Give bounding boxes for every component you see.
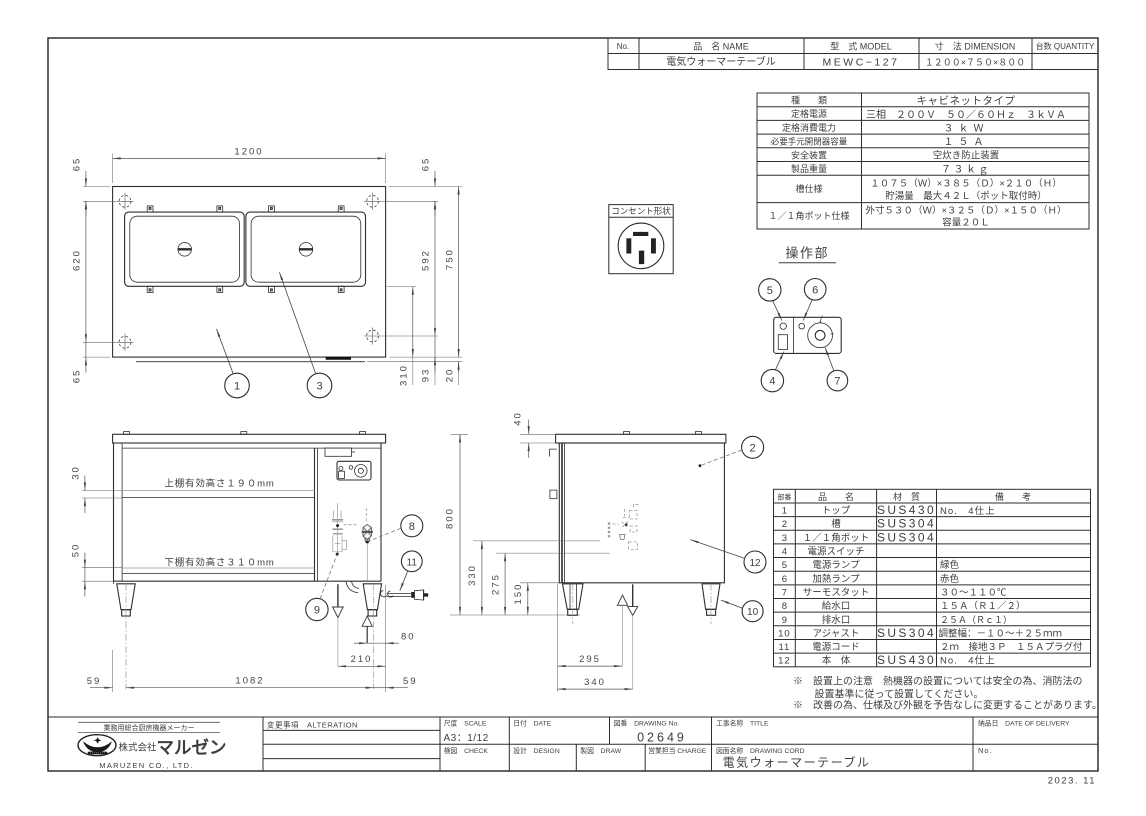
dimension 620 left (83, 341, 116, 343)
svg-text:1: 1 (234, 381, 240, 393)
svg-text:マルゼン: マルゼン (157, 738, 227, 758)
outlet prongs (633, 232, 648, 236)
svg-text:２ｍ 接地３Ｐ １５Ａプラグ付: ２ｍ 接地３Ｐ １５Ａプラグ付 (940, 641, 1083, 653)
balloon 1 (225, 373, 250, 398)
dimension 210 (338, 665, 386, 667)
svg-text:7: 7 (834, 376, 840, 388)
svg-text:800: 800 (445, 507, 456, 529)
dimension 310 (387, 286, 416, 288)
dimension 330 (473, 540, 600, 542)
dimension 150 (520, 582, 559, 584)
svg-text:310: 310 (398, 364, 409, 386)
svg-text:工事名称 TITLE: 工事名称 TITLE (716, 719, 769, 728)
svg-text:1200: 1200 (234, 147, 263, 158)
svg-text:３０～１１０℃: ３０～１１０℃ (940, 588, 1007, 599)
dimension 65 left bottom (83, 356, 110, 358)
svg-text:製図 DRAW: 製図 DRAW (580, 746, 621, 755)
pot clamp tabs top (147, 206, 344, 212)
dimension 59 right (386, 687, 408, 689)
dimension 30 (82, 490, 122, 492)
svg-text:上棚有効高さ１９０mm: 上棚有効高さ１９０mm (164, 478, 274, 490)
svg-text:11: 11 (407, 557, 418, 568)
svg-text:日付 DATE: 日付 DATE (513, 719, 551, 728)
adjuster foot circle top-left (117, 193, 134, 210)
svg-text:12: 12 (778, 656, 791, 667)
svg-text:5: 5 (767, 285, 773, 297)
side inlet up arrow (617, 595, 627, 605)
balloon 5 (759, 279, 781, 301)
adjuster foot circle top-right (364, 193, 381, 210)
svg-text:8: 8 (782, 601, 787, 612)
svg-text:定格電源: 定格電源 (791, 108, 827, 119)
svg-text:赤色: 赤色 (940, 573, 960, 585)
leader dots (336, 524, 339, 527)
dimension 65 right top (389, 186, 463, 188)
front top slab (113, 434, 386, 443)
balloon 10 (742, 601, 763, 622)
svg-text:株式会社: 株式会社 (119, 742, 158, 754)
svg-text:台数 QUANTITY: 台数 QUANTITY (1036, 41, 1095, 51)
svg-text:SUS304: SUS304 (877, 626, 936, 640)
svg-text:4: 4 (769, 376, 775, 388)
svg-text:７３ｋｇ: ７３ｋｇ (941, 163, 991, 175)
pot 2 (right) outer (246, 212, 366, 286)
pot 2 inner (251, 216, 361, 282)
svg-text:検図 CHECK: 検図 CHECK (444, 746, 489, 755)
svg-text:340: 340 (584, 677, 606, 688)
svg-text:１５Ａ: １５Ａ (944, 137, 989, 148)
pot 2 handle (299, 243, 313, 257)
svg-text:1: 1 (782, 506, 787, 517)
svg-text:尺度 SCALE: 尺度 SCALE (444, 719, 487, 728)
svg-text:SUS430: SUS430 (877, 653, 936, 667)
svg-text:30: 30 (71, 465, 82, 480)
heat lamp (799, 323, 805, 329)
dimension 1082 (112, 650, 114, 692)
svg-text:槽仕様: 槽仕様 (795, 183, 822, 194)
svg-text:02649: 02649 (637, 731, 687, 745)
svg-text:品 名: 品 名 (818, 491, 854, 502)
side left legs (563, 584, 584, 610)
svg-text:排水口: 排水口 (822, 614, 851, 626)
svg-text:2023. 11: 2023. 11 (1048, 776, 1096, 787)
svg-text:種 類: 種 類 (791, 96, 827, 106)
svg-text:A3：1/12: A3：1/12 (444, 733, 489, 744)
svg-text:サーモスタット: サーモスタット (803, 588, 870, 599)
svg-text:加熱ランプ: 加熱ランプ (812, 573, 860, 585)
svg-text:３ｋＷ: ３ｋＷ (944, 122, 989, 134)
dimension 65 left top (83, 186, 110, 188)
svg-text:納品日 DATE OF DELIVERY: 納品日 DATE OF DELIVERY (978, 719, 1070, 728)
svg-text:図面名称 DRAWING CORD: 図面名称 DRAWING CORD (716, 746, 805, 755)
svg-text:電源ランプ: 電源ランプ (812, 560, 860, 571)
svg-text:2: 2 (750, 442, 756, 454)
svg-text:20: 20 (445, 368, 456, 383)
front body outline (113, 443, 115, 581)
svg-text:6: 6 (782, 574, 787, 585)
svg-text:10: 10 (747, 607, 759, 618)
svg-text:電気ウォーマーテーブル: 電気ウォーマーテーブル (723, 755, 871, 770)
balloon 3 (307, 373, 332, 398)
svg-text:下棚有効高さ３１０mm: 下棚有効高さ３１０mm (164, 557, 274, 569)
svg-text:3: 3 (316, 381, 322, 393)
power lamp (780, 323, 786, 329)
svg-text:※ 改善の為、仕様及び外観を予告なしに変更することがあります: ※ 改善の為、仕様及び外観を予告なしに変更することがあります。 (793, 699, 1102, 712)
svg-text:750: 750 (445, 248, 456, 270)
svg-text:業務用総合厨房機器メーカー: 業務用総合厨房機器メーカー (104, 723, 195, 732)
svg-text:電源コード: 電源コード (812, 642, 860, 653)
dimension 340 (558, 688, 633, 690)
balloon 4 (761, 369, 783, 391)
svg-text:59: 59 (403, 676, 418, 687)
installation notes (793, 675, 1102, 712)
svg-text:設置基準に従って設置してください。: 設置基準に従って設置してください。 (815, 688, 984, 701)
svg-text:210: 210 (351, 654, 373, 665)
svg-text:9: 9 (314, 605, 320, 617)
svg-text:アジャスト: アジャスト (813, 628, 860, 639)
balloon 2 (742, 436, 764, 458)
side top slab (556, 434, 726, 443)
svg-text:65: 65 (421, 157, 432, 172)
svg-text:592: 592 (421, 249, 432, 271)
svg-text:キャビネットタイプ: キャビネットタイプ (917, 95, 1016, 107)
svg-text:11: 11 (778, 642, 790, 653)
front left leg (117, 584, 135, 610)
balloon 9 (306, 598, 328, 620)
svg-text:１５Ａ（Ｒ１／２）: １５Ａ（Ｒ１／２） (940, 600, 1026, 612)
dimension 50 (82, 567, 122, 569)
outlet circle (618, 223, 664, 269)
maruzen bird logo (78, 735, 116, 756)
water supply valve (hidden, gray) (332, 503, 347, 554)
svg-text:620: 620 (72, 249, 83, 271)
svg-text:59: 59 (87, 676, 102, 687)
name/model table (608, 38, 1098, 70)
upper shelf (122, 490, 314, 492)
svg-text:コンセント形状: コンセント形状 (611, 206, 671, 216)
svg-text:SUS430: SUS430 (877, 503, 936, 517)
svg-text:93: 93 (421, 368, 432, 383)
svg-text:調整幅：－１０～＋２５ｍｍ: 調整幅：－１０～＋２５ｍｍ (939, 627, 1063, 639)
dashed link to inlet (344, 524, 359, 526)
svg-text:容量２０Ｌ: 容量２０Ｌ (942, 217, 990, 229)
balloon 7 (827, 370, 848, 391)
maker catchphrase (78, 721, 220, 723)
svg-text:No.: No. (978, 746, 993, 755)
dimension 295 (557, 584, 559, 692)
pot clamp tabs bottom (147, 286, 344, 292)
dimension 592 right (382, 335, 439, 337)
svg-text:SUS304: SUS304 (877, 530, 936, 544)
vent slot (325, 448, 352, 456)
svg-text:50: 50 (71, 543, 82, 558)
svg-text:給水口: 給水口 (822, 600, 851, 612)
power switch (778, 335, 787, 350)
svg-text:緑色: 緑色 (940, 559, 960, 571)
svg-text:電源スイッチ: 電源スイッチ (807, 547, 864, 558)
adjuster foot circle bottom-left (117, 334, 134, 351)
dimension 20 right (367, 361, 462, 363)
balloon 6 (804, 279, 826, 301)
svg-text:図番 DRAWING No.: 図番 DRAWING No. (614, 720, 680, 728)
side body (559, 443, 724, 583)
svg-text:12: 12 (749, 558, 761, 569)
control panel (front view) (337, 461, 371, 480)
dimension 40 (520, 433, 556, 435)
svg-text:部番: 部番 (777, 493, 791, 502)
pot handle bumps on top (124, 432, 130, 435)
power cord and plug (381, 591, 412, 597)
svg-text:２５Ａ（Ｒｃ１）: ２５Ａ（Ｒｃ１） (940, 615, 1012, 625)
svg-text:65: 65 (72, 157, 83, 172)
svg-text:変更事項 ALTERATION: 変更事項 ALTERATION (267, 720, 358, 730)
dimension 800 (shared height) (451, 433, 469, 435)
svg-text:操作部: 操作部 (786, 246, 830, 261)
svg-text:品 名 NAME: 品 名 NAME (693, 41, 749, 52)
svg-text:40: 40 (513, 411, 524, 426)
svg-text:3: 3 (782, 533, 787, 544)
specification table (757, 93, 1089, 229)
svg-text:5: 5 (782, 560, 787, 571)
svg-text:150: 150 (513, 583, 524, 605)
balloon 8 (401, 515, 423, 537)
hidden faucet (dashed) (609, 504, 639, 549)
svg-text:7: 7 (782, 588, 787, 599)
side right leg (702, 584, 720, 610)
panel body (774, 317, 842, 353)
svg-text:本 体: 本 体 (822, 655, 851, 667)
svg-text:寸 法 DIMENSION: 寸 法 DIMENSION (935, 41, 1016, 52)
dimension 93 right (390, 356, 463, 358)
svg-text:空炊き防止装置: 空炊き防止装置 (933, 150, 1000, 162)
right compartment divider (314, 448, 316, 581)
svg-text:安全装置: 安全装置 (791, 149, 827, 160)
dimension 275 (496, 552, 610, 554)
svg-text:275: 275 (490, 573, 501, 595)
dimension 1200 (plan width) (112, 154, 114, 184)
svg-text:65: 65 (72, 369, 83, 384)
drain elbow (346, 581, 358, 593)
front right leg (363, 584, 381, 610)
svg-text:No. 4仕上: No. 4仕上 (940, 655, 996, 667)
svg-text:１／１角ポット: １／１角ポット (803, 532, 870, 544)
front rail hooks (550, 449, 557, 456)
svg-text:槽: 槽 (831, 518, 841, 530)
svg-text:１０７５（Ｗ）×３８５（Ｄ）×２１０（Ｈ）: １０７５（Ｗ）×３８５（Ｄ）×２１０（Ｈ） (870, 178, 1062, 190)
dimension 80 (385, 585, 387, 692)
side drain down arrow (632, 584, 634, 606)
svg-text:295: 295 (579, 654, 601, 665)
svg-text:必要手元開閉器容量: 必要手元開閉器容量 (771, 137, 848, 147)
svg-text:No. 4仕上: No. 4仕上 (940, 505, 996, 517)
svg-text:MEWC−127: MEWC−127 (823, 57, 900, 69)
svg-text:トップ: トップ (822, 506, 851, 517)
svg-text:貯湯量 最大４２Ｌ（ポット取付時）: 貯湯量 最大４２Ｌ（ポット取付時） (885, 190, 1047, 202)
svg-text:外寸５３０（Ｗ）×３２５（Ｄ）×１５０（Ｈ）: 外寸５３０（Ｗ）×３２５（Ｄ）×１５０（Ｈ） (865, 205, 1066, 217)
svg-text:6: 6 (812, 284, 818, 296)
adjuster foot circle bottom-right (364, 328, 381, 345)
pot 1 (left) outer (125, 212, 245, 286)
svg-text:1082: 1082 (235, 676, 264, 687)
svg-text:9: 9 (782, 615, 787, 626)
svg-text:10: 10 (778, 628, 791, 639)
control panel thick mark on front edge (326, 357, 351, 360)
plan outline (113, 187, 386, 358)
pot 1 inner (130, 216, 240, 282)
balloon 12 (744, 551, 766, 573)
svg-text:2: 2 (782, 519, 787, 530)
svg-text:SUS304: SUS304 (877, 517, 936, 531)
svg-text:330: 330 (467, 564, 478, 586)
svg-text:設計 DESIGN: 設計 DESIGN (513, 746, 560, 755)
svg-text:備 考: 備 考 (995, 491, 1031, 502)
svg-text:80: 80 (401, 632, 416, 643)
pot 1 handle (178, 243, 192, 257)
svg-text:4: 4 (782, 547, 787, 558)
svg-text:材 質: 材 質 (893, 491, 920, 502)
lower shelf (122, 567, 314, 569)
svg-text:※ 設置上の注意 熱機器の設置については安全の為、消防法の: ※ 設置上の注意 熱機器の設置については安全の為、消防法の (793, 675, 1083, 688)
svg-text:電気ウォーマーテーブル: 電気ウォーマーテーブル (666, 55, 775, 68)
svg-text:定格消費電力: 定格消費電力 (782, 122, 836, 133)
svg-text:１２００×７５０×８００: １２００×７５０×８００ (925, 58, 1026, 68)
svg-text:営業担当 CHARGE: 営業担当 CHARGE (648, 746, 707, 755)
dimension 750 right (458, 187, 460, 358)
dimension 59 left (90, 687, 113, 689)
thermostat knob (808, 323, 833, 348)
outlet box (609, 205, 673, 274)
inlet up arrow (362, 616, 372, 626)
svg-text:No.: No. (617, 42, 629, 51)
svg-text:8: 8 (409, 521, 415, 533)
plan lower body edge (20 offset) (136, 361, 365, 363)
balloon 11 (401, 551, 422, 572)
drain down arrow (337, 584, 339, 607)
svg-text:製品重量: 製品重量 (791, 163, 827, 174)
svg-text:１／１角ポット仕様: １／１角ポット仕様 (768, 210, 849, 221)
svg-text:三相 ２００Ｖ ５０／６０Ｈｚ ３ｋＶＡ: 三相 ２００Ｖ ５０／６０Ｈｚ ３ｋＶＡ (866, 108, 1066, 121)
water inlet fitting (362, 525, 373, 543)
svg-text:型 式 MODEL: 型 式 MODEL (830, 41, 892, 52)
svg-text:MARUZEN CO., LTD.: MARUZEN CO., LTD. (99, 761, 193, 770)
